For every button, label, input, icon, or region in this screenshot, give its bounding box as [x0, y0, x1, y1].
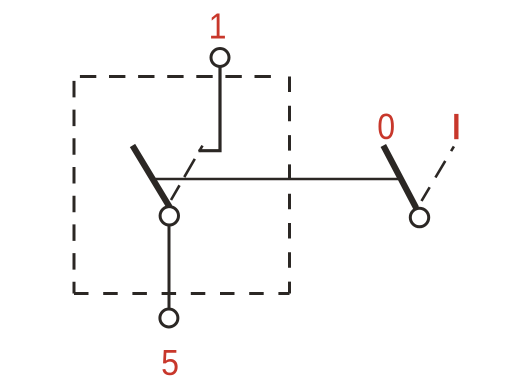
enclosure dashed box right edge — [288, 77, 291, 294]
wire terminal 1 to fixed contact — [199, 67, 221, 151]
enclosure dashed box bottom edge — [74, 292, 290, 295]
position I label — [454, 114, 458, 139]
enclosure dashed box top edge — [74, 75, 282, 78]
svg-text:5: 5 — [161, 343, 179, 380]
pivot terminal circle pole 1 — [160, 207, 178, 225]
mechanical coupling line — [152, 178, 402, 181]
svg-text:0: 0 — [377, 107, 395, 147]
terminal 1 circle — [211, 49, 229, 67]
svg-text:1: 1 — [209, 7, 227, 47]
enclosure dashed box left edge — [73, 77, 76, 294]
switch lever pole 1 — [133, 146, 170, 208]
actuator lever — [383, 146, 416, 209]
actuator pivot circle — [410, 208, 428, 226]
contact closed-position dashed line pole 1 — [171, 146, 203, 200]
position I dashed line — [422, 146, 454, 201]
wire pivot to terminal 5 — [168, 226, 171, 309]
terminal 5 circle — [160, 309, 178, 327]
